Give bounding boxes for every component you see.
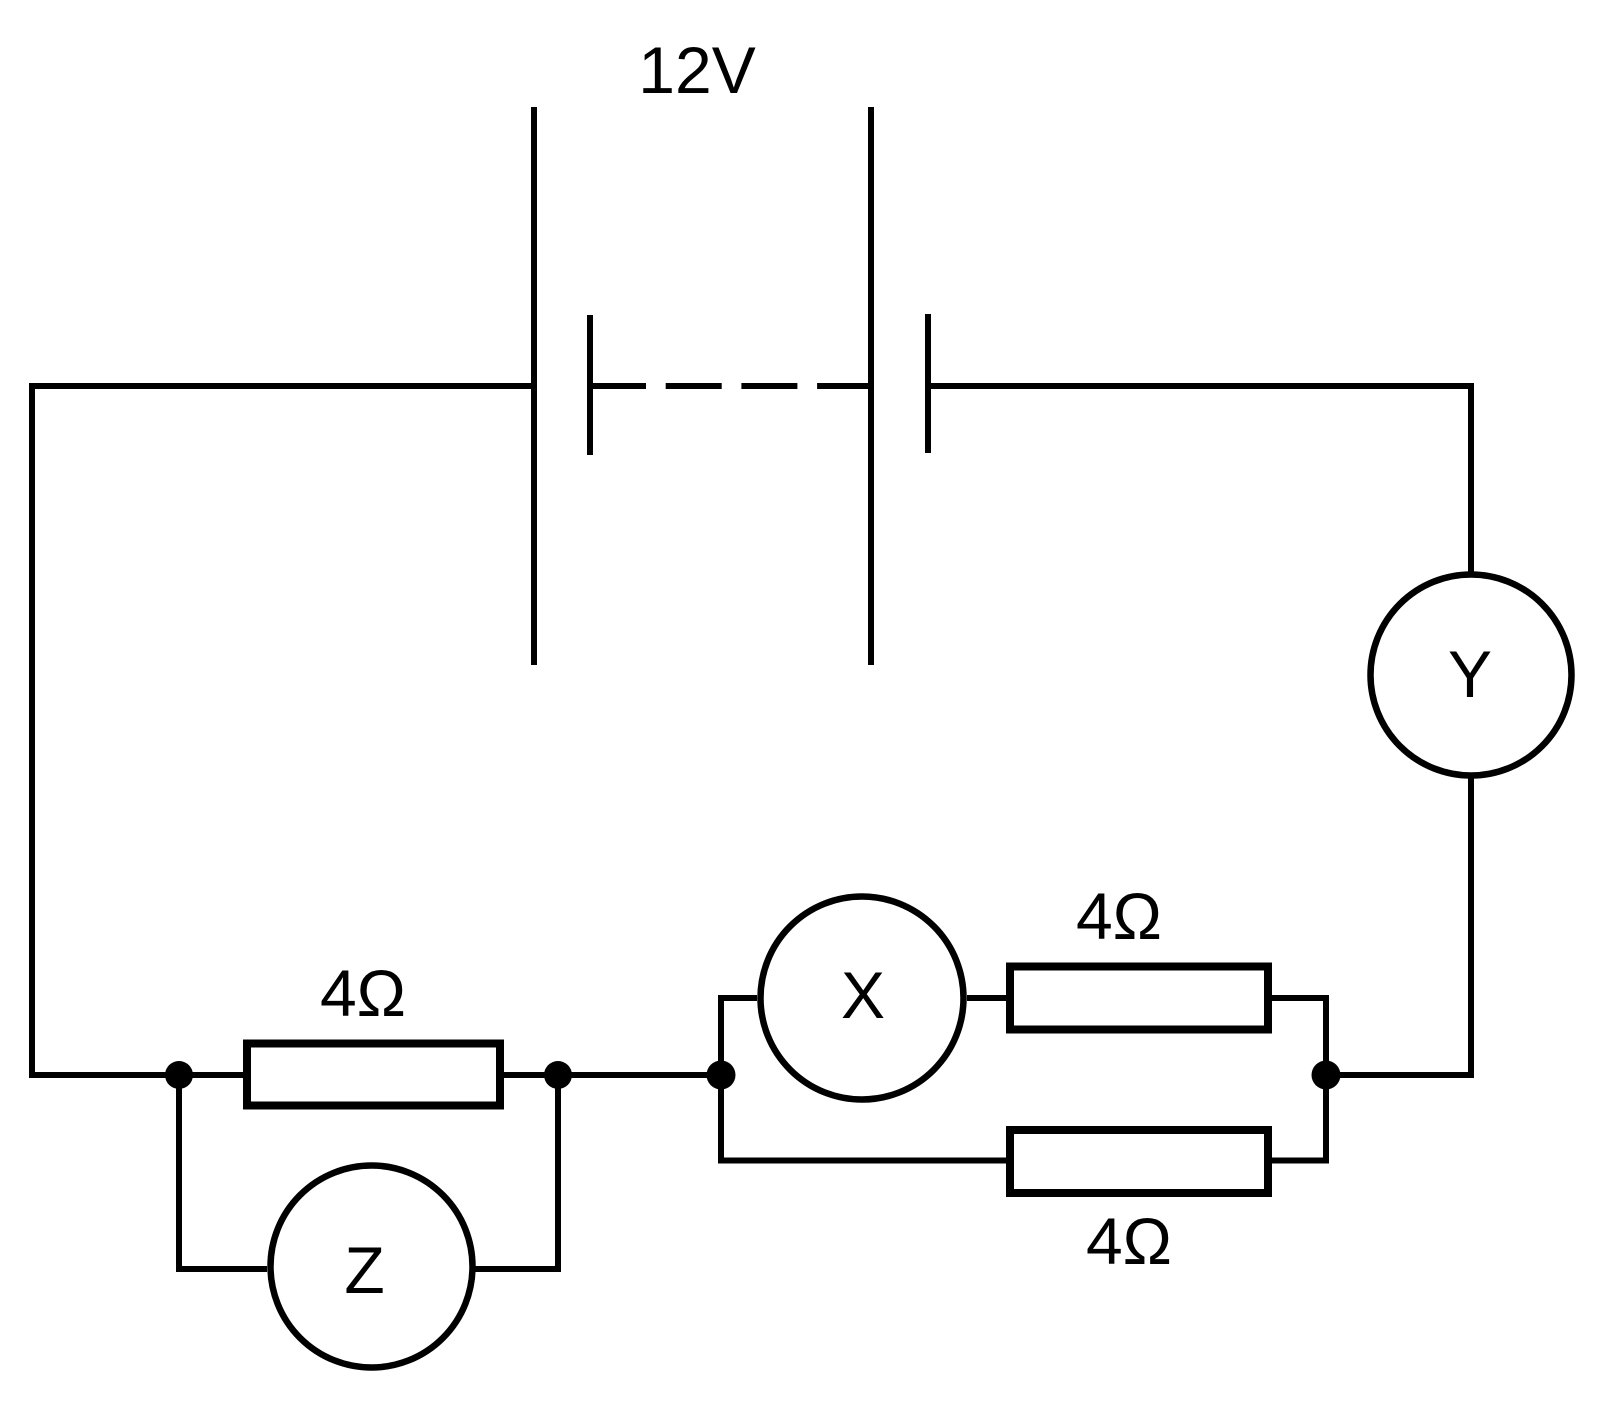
wire dashed between battery cells <box>590 383 871 389</box>
wire bottom branch: node C down right to resistor R3 <box>721 1075 1010 1161</box>
voltmeter Z <box>271 1166 473 1368</box>
svg-text:4Ω: 4Ω <box>1076 879 1162 953</box>
node B junction dot <box>544 1061 572 1089</box>
wire top-left: battery left plate to left side and down <box>32 386 534 1075</box>
resistor R3 4 ohm (right parallel bottom branch) <box>1010 1130 1268 1193</box>
battery B1 left cell long plate <box>531 107 537 665</box>
battery B1 right cell short plate <box>925 314 931 453</box>
wire R3 right up to node D <box>1268 1075 1326 1161</box>
wire Z branch right: voltmeter Z right up to node B <box>475 1075 558 1269</box>
node A junction dot <box>165 1061 193 1089</box>
svg-text:X: X <box>841 958 885 1032</box>
svg-text:Y: Y <box>1448 637 1492 711</box>
wire below Y down and left to node D <box>1340 775 1471 1075</box>
wire R1 right to node B and across to node C <box>500 1072 721 1078</box>
battery B1 left cell short plate <box>587 315 593 455</box>
battery B1 right cell long plate <box>868 107 874 665</box>
ammeter X <box>761 897 964 1100</box>
svg-text:12V: 12V <box>638 33 755 107</box>
wire X to resistor R2 <box>967 995 1010 1001</box>
wire Z branch left: node A down and right to voltmeter Z <box>179 1075 267 1269</box>
wire R2 right down to node D <box>1268 998 1326 1075</box>
ammeter Y <box>1371 575 1572 776</box>
svg-text:4Ω: 4Ω <box>320 956 406 1030</box>
wire node C up to ammeter X <box>721 998 757 1075</box>
svg-text:Z: Z <box>344 1233 384 1307</box>
svg-text:4Ω: 4Ω <box>1086 1204 1172 1278</box>
node D junction dot <box>1312 1061 1341 1090</box>
resistor R2 4 ohm (right parallel top branch) <box>1010 967 1268 1030</box>
wire top-right: battery to right side down to ammeter Y <box>928 386 1471 576</box>
resistor R1 4 ohm (left parallel top branch) <box>247 1044 500 1106</box>
node C junction dot <box>707 1061 736 1090</box>
